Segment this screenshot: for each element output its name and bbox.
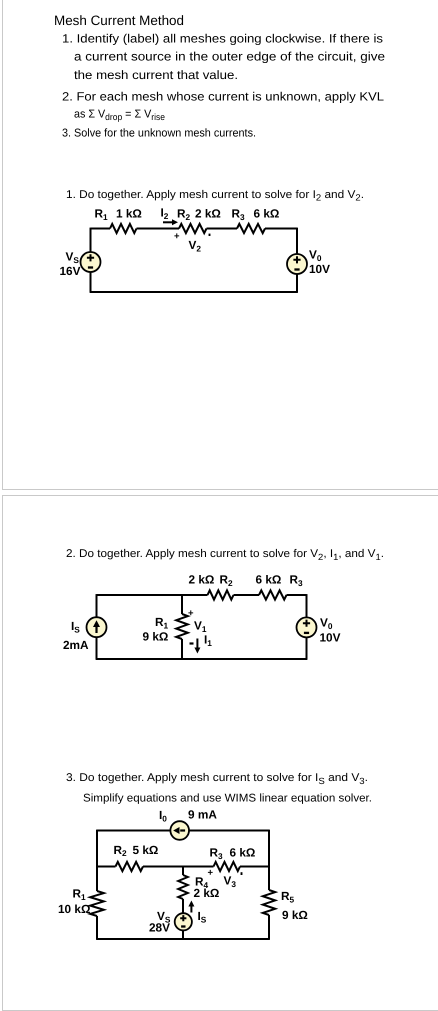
svg-text:28V: 28V — [149, 921, 170, 935]
svg-text:1. Identify (label) all meshes: 1. Identify (label) all meshes going clo… — [62, 32, 383, 46]
wire: circuit3 middle branch lower — [182, 930, 184, 939]
svg-text:9 kΩ: 9 kΩ — [143, 630, 169, 644]
wire: circuit3 left side lower — [96, 916, 98, 939]
svg-text:as Σ Vdrop​ = Σ Vrise​: as Σ Vdrop​ = Σ Vrise​ — [74, 109, 165, 123]
polarity minus tick of V3 (circuit3) — [241, 872, 243, 875]
svg-text:2. For each mesh whose current: 2. For each mesh whose current is unknow… — [62, 89, 384, 103]
svg-text:+: + — [174, 231, 180, 242]
wire: circuit2 bottom — [96, 658, 308, 660]
svg-text:R3: R3 — [232, 207, 246, 222]
svg-text:9 mA: 9 mA — [188, 808, 217, 822]
wire: circuit1 bottom — [90, 291, 298, 293]
svg-text:6 kΩ: 6 kΩ — [254, 207, 280, 221]
svg-text:I2: I2 — [161, 206, 169, 221]
resistor R5 9k (circuit3 right) — [263, 890, 275, 915]
resistor R4 2k (circuit3 middle branch) — [178, 875, 188, 899]
voltage source V0 10V (circuit2 right) — [297, 617, 317, 637]
svg-text:R1: R1 — [155, 615, 169, 630]
wire: circuit3 right side upper — [268, 830, 270, 890]
wire: circuit1 top between R2 and R3 — [207, 228, 238, 230]
svg-text:Simplify equations and use WIM: Simplify equations and use WIMS linear e… — [83, 792, 372, 804]
svg-text:2mA: 2mA — [63, 638, 89, 652]
svg-text:a current source in the outer: a current source in the outer edge of th… — [74, 49, 385, 63]
svg-text:R5: R5 — [281, 889, 295, 904]
wire: circuit2 middle branch upper — [181, 595, 183, 614]
resistor R2 5k (circuit3 inner wire) — [116, 862, 144, 871]
wire: circuit2 right side upper — [306, 594, 308, 617]
resistor R2 2k (circuit2 top) — [208, 590, 234, 599]
resistor R3 6k (circuit3 inner wire) — [214, 862, 241, 871]
svg-text:2 kΩ: 2 kΩ — [195, 207, 221, 221]
svg-text:V2: V2 — [189, 238, 202, 253]
svg-text:10 kΩ: 10 kΩ — [58, 902, 90, 916]
svg-text:R3: R3 — [210, 846, 224, 861]
resistor R1 9k (circuit2 middle branch) — [176, 614, 188, 639]
svg-text:R1: R1 — [73, 887, 87, 902]
resistor R3 6k (circuit2 top) — [259, 590, 287, 599]
svg-text:1. Do together. Apply mesh cur: 1. Do together. Apply mesh current to so… — [66, 189, 364, 203]
current source I0 9mA (circuit3 top) — [170, 821, 189, 840]
arrow I1 mesh current (circuit2) — [194, 639, 200, 654]
wire: circuit1 top-left segment — [91, 228, 111, 230]
svg-text:R2: R2 — [177, 207, 191, 222]
polarity minus tick of V2 (circuit1) — [209, 234, 211, 236]
svg-text:R2: R2 — [114, 843, 128, 858]
wire: circuit2 middle branch lower — [181, 639, 183, 659]
svg-text:R3: R3 — [290, 573, 304, 588]
svg-text:+: + — [208, 868, 214, 879]
wire: circuit3 middle branch between R4 and VS — [182, 899, 184, 914]
wire: circuit1 top-right segment — [265, 228, 297, 230]
wire: circuit1 top between R1 and R2 — [137, 228, 180, 230]
resistor R1 10k (circuit3 left) — [90, 891, 104, 916]
wire: circuit2 top between R2 and R3 — [234, 594, 260, 596]
svg-text:V0: V0 — [309, 248, 322, 263]
svg-text:2 kΩ: 2 kΩ — [194, 886, 220, 900]
arrow IS mesh current (circuit3) — [188, 901, 194, 913]
current source IS 2mA (circuit2 left) — [87, 617, 107, 637]
resistor R3 6k (circuit1 top) — [237, 224, 265, 233]
svg-text:5 kΩ: 5 kΩ — [133, 843, 159, 857]
wire: circuit3 middle branch upper — [182, 867, 184, 876]
svg-text:2. Do together. Apply mesh cur: 2. Do together. Apply mesh current to so… — [66, 548, 384, 562]
resistor R1 1k (circuit1 top) — [110, 224, 137, 233]
wire: circuit1 left side upper — [90, 228, 92, 252]
arrow I2 (circuit1) — [163, 219, 178, 225]
wire: circuit3 inner wire between R2 and R3 — [143, 866, 214, 868]
svg-text:I1: I1 — [204, 633, 212, 648]
wire: circuit2 top-left segment — [97, 594, 208, 596]
svg-text:6 kΩ: 6 kΩ — [256, 573, 282, 587]
wire: circuit3 left side upper — [96, 830, 98, 891]
svg-text:2 kΩ: 2 kΩ — [189, 573, 215, 587]
svg-text:1 kΩ: 1 kΩ — [116, 207, 142, 221]
voltage source VS 16V (circuit1 left) — [81, 252, 101, 272]
resistor R2 2k (circuit1 top) — [179, 224, 207, 233]
svg-text:R1: R1 — [95, 207, 109, 222]
svg-text:R2: R2 — [220, 573, 234, 588]
wire: circuit3 inner wire right lead — [240, 866, 269, 868]
wire: circuit1 right side upper — [296, 228, 298, 254]
wire: circuit2 left side upper — [96, 594, 98, 617]
wire: circuit2 right side lower — [306, 637, 308, 659]
wire: circuit3 top-right segment — [189, 830, 269, 832]
voltage source V0 10V (circuit1 right) — [287, 254, 307, 274]
svg-text:Mesh Current Method: Mesh Current Method — [54, 13, 184, 28]
wire: circuit3 top-left segment — [97, 830, 171, 832]
wire: circuit3 inner wire left lead — [97, 866, 116, 868]
svg-text:3. Solve for the unknown mesh: 3. Solve for the unknown mesh currents. — [62, 128, 256, 140]
svg-text:the mesh current that value.: the mesh current that value. — [74, 68, 238, 82]
svg-text:10V: 10V — [320, 631, 341, 645]
polarity minus of V1 (circuit2) — [190, 642, 194, 644]
svg-text:6 kΩ: 6 kΩ — [230, 846, 256, 860]
svg-text:V3: V3 — [224, 874, 237, 889]
svg-text:VS: VS — [66, 250, 80, 265]
wire: circuit3 right side lower — [268, 915, 270, 939]
svg-text:IS: IS — [198, 909, 207, 924]
svg-text:9 kΩ: 9 kΩ — [282, 908, 308, 922]
wire: circuit3 bottom — [96, 938, 270, 940]
svg-text:IS: IS — [71, 619, 80, 634]
svg-text:10V: 10V — [309, 262, 330, 276]
svg-text:+: + — [188, 608, 194, 619]
svg-text:16V: 16V — [60, 264, 81, 278]
svg-text:3. Do together. Apply mesh cur: 3. Do together. Apply mesh current to so… — [66, 772, 368, 786]
wire: circuit2 top-right segment — [287, 594, 307, 596]
svg-text:V1: V1 — [194, 619, 207, 634]
svg-text:V0: V0 — [320, 616, 333, 631]
voltage source VS 28V (circuit3 middle branch) — [175, 913, 192, 930]
wire: circuit1 right side lower — [296, 274, 298, 292]
svg-text:I0: I0 — [159, 808, 167, 823]
wire: circuit1 left side lower — [90, 272, 92, 292]
wire: circuit2 left side lower — [96, 637, 98, 659]
